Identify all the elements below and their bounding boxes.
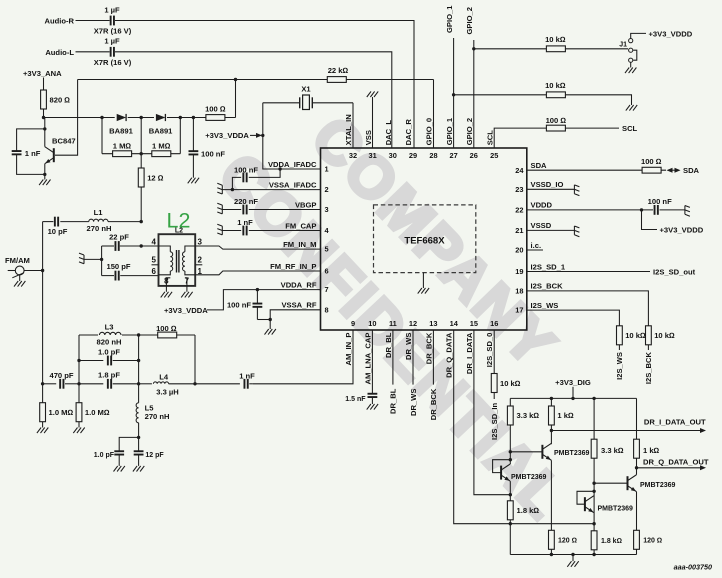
ground: [188, 178, 192, 184]
transistor Q4 PMBT2369 diode-connected: [584, 497, 586, 511]
junction: [137, 436, 140, 439]
junction: [41, 269, 44, 272]
ground ticks: [685, 206, 690, 217]
svg-text:820 Ω: 820 Ω: [50, 95, 71, 104]
junction: [571, 397, 574, 400]
wire main AM row: [43, 383, 57, 385]
junction: [41, 382, 44, 385]
junction: [592, 482, 595, 485]
inductor L1 270nH: [60, 221, 89, 223]
junction: [77, 382, 80, 385]
svg-text:1.8 pF: 1.8 pF: [98, 371, 120, 380]
wire pin4 row to transformer: [120, 245, 159, 247]
svg-text:30: 30: [389, 151, 397, 160]
ground: [625, 68, 629, 74]
junction: [261, 134, 264, 137]
junction: [592, 397, 595, 400]
svg-text:1 µF: 1 µF: [104, 37, 120, 46]
wire DR_Q_DATA: [454, 330, 594, 524]
wire DR_BL stub: [392, 330, 394, 385]
svg-text:1.0 MΩ: 1.0 MΩ: [85, 408, 110, 417]
svg-text:32: 32: [349, 151, 357, 160]
wire GPIO_0 drop: [433, 80, 435, 149]
wire I2S_SD_0: [493, 330, 495, 374]
wire L3 row: [79, 334, 195, 336]
wire: [186, 286, 188, 292]
svg-text:J1: J1: [619, 41, 627, 48]
wire AM_IN_P: [253, 330, 353, 384]
transistor Q2 PMBT2369: [510, 451, 542, 453]
junction: [100, 116, 103, 119]
wire DR_I_DATA_OUT: [551, 430, 701, 432]
node SDA bidirectional: [667, 168, 673, 173]
svg-text:GPIO_1: GPIO_1: [445, 117, 454, 145]
ground: [161, 292, 165, 298]
svg-text:L4: L4: [159, 373, 169, 382]
svg-text:+3V3_VDDD: +3V3_VDDD: [649, 29, 693, 38]
transformer right winding: [185, 246, 195, 252]
wire: [138, 437, 140, 450]
svg-text:X7R (16 V): X7R (16 V): [94, 27, 132, 36]
svg-text:BC847: BC847: [52, 136, 76, 145]
wire DR_BCK stub: [432, 330, 434, 385]
resistor R8 10 kOhm: [546, 92, 565, 98]
svg-text:820 nH: 820 nH: [97, 338, 122, 347]
svg-text:12 pF: 12 pF: [145, 452, 164, 459]
wire: [257, 319, 270, 321]
wire: [207, 290, 321, 310]
svg-text:AM_LNA_CAP: AM_LNA_CAP: [363, 333, 372, 385]
ground: [265, 329, 269, 335]
junction: [43, 127, 46, 130]
svg-text:100 nF: 100 nF: [234, 165, 258, 174]
transformer core: [176, 250, 178, 273]
svg-text:220 nF: 220 nF: [234, 197, 258, 206]
svg-text:L1: L1: [94, 208, 104, 217]
svg-text:10 kΩ: 10 kΩ: [625, 331, 646, 340]
wire pullup row 2: [454, 95, 632, 105]
wire emitter: [44, 164, 46, 175]
svg-text:26: 26: [470, 151, 478, 160]
svg-text:Audio-L: Audio-L: [45, 48, 74, 57]
capacitor C16 1.8pF: [107, 379, 109, 389]
junction: [635, 466, 638, 469]
svg-text:15: 15: [470, 319, 478, 328]
wire I2S_BCK: [527, 291, 649, 326]
svg-text:SCL: SCL: [485, 130, 494, 146]
wire: [630, 62, 632, 67]
wire: [636, 492, 638, 531]
svg-text:16: 16: [490, 319, 498, 328]
junction: [592, 490, 595, 493]
wire: [194, 335, 196, 384]
svg-text:PMBT2369: PMBT2369: [511, 474, 547, 481]
svg-text:5: 5: [152, 256, 157, 265]
junction: [43, 173, 46, 176]
ground VSS pin31: [372, 97, 374, 148]
svg-text:6: 6: [325, 267, 329, 276]
wire: [76, 20, 110, 22]
svg-text:8: 8: [164, 276, 169, 285]
svg-text:1.8 kΩ: 1.8 kΩ: [517, 506, 540, 515]
wire 1M row: [102, 153, 180, 155]
watermark COMPANY CONFIDENTIAL: [206, 104, 579, 532]
svg-text:I2S_WS: I2S_WS: [615, 352, 624, 380]
svg-text:120 Ω: 120 Ω: [558, 537, 577, 544]
capacitor C6 220nF VBGP: [222, 209, 241, 211]
wire: [101, 118, 103, 154]
capacitor C18 1.0pF: [114, 450, 124, 452]
svg-text:29: 29: [409, 151, 417, 160]
resistor R15 1.0 MOhm left: [42, 384, 44, 403]
svg-text:2: 2: [325, 185, 329, 194]
wire L2 pin1 to FM_RF_IN_P: [195, 271, 320, 275]
resistor R13 10 kOhm: [491, 374, 497, 393]
wire ground rail: [510, 554, 636, 556]
svg-text:DR_I_DATA_OUT: DR_I_DATA_OUT: [644, 418, 706, 427]
svg-text:22 pF: 22 pF: [109, 232, 129, 241]
wire VSSD: [527, 229, 575, 231]
wire pullup row 1: [474, 48, 628, 50]
junction: [140, 220, 143, 223]
svg-text:GPIO_1: GPIO_1: [445, 5, 454, 33]
wire I2S_SD_1: [527, 271, 650, 273]
wire left vertical: [78, 335, 80, 403]
svg-text:5: 5: [325, 245, 329, 254]
junction: [472, 47, 475, 50]
junction: [140, 152, 143, 155]
svg-text:BA891: BA891: [109, 126, 133, 135]
svg-text:11: 11: [389, 319, 397, 328]
svg-text:270 nH: 270 nH: [145, 412, 170, 421]
wire: [618, 345, 620, 350]
svg-text:PMBT2369: PMBT2369: [554, 450, 590, 457]
svg-text:10 kΩ: 10 kΩ: [545, 81, 566, 90]
wire DR_I_DATA: [474, 330, 510, 495]
wire to +3V3_VDDD: [642, 210, 658, 230]
svg-text:DR_WS: DR_WS: [409, 389, 418, 416]
svg-text:GPIO_2: GPIO_2: [465, 7, 474, 34]
svg-text:AM_IN_P: AM_IN_P: [344, 333, 353, 366]
svg-text:9: 9: [351, 319, 355, 328]
svg-text:I2S_WS: I2S_WS: [531, 301, 559, 310]
wire mid vertical: [138, 335, 140, 403]
capacitor C7 1nF FM_CAP: [222, 230, 241, 232]
wire: [165, 286, 167, 292]
junction: [77, 359, 80, 362]
resistor R14 100 Ohm: [158, 332, 177, 338]
svg-text:1 MΩ: 1 MΩ: [152, 142, 171, 151]
diode D2 BA891: [154, 116, 167, 119]
junction: [509, 450, 512, 453]
svg-text:1 nF: 1 nF: [25, 149, 41, 158]
junction: [179, 116, 182, 119]
ground internal: [418, 288, 422, 294]
junction: [571, 553, 574, 556]
capacitor C17 1nF: [244, 379, 246, 389]
transistor Q5 PMBT2369 output: [594, 482, 627, 484]
svg-text:100 Ω: 100 Ω: [546, 116, 567, 125]
resistor R18 1 kOhm: [550, 398, 552, 406]
ground ticks VSSA_IFADC: [217, 183, 222, 194]
wire supply rail: [510, 397, 636, 399]
wire: [636, 458, 638, 475]
svg-text:1.0 pF: 1.0 pF: [94, 452, 115, 459]
resistor R22 1.8 kOhm: [593, 550, 595, 555]
resistor R12 10 kOhm: [617, 326, 623, 345]
svg-text:1.0 MΩ: 1.0 MΩ: [49, 408, 74, 417]
svg-text:1 nF: 1 nF: [239, 372, 255, 381]
capacitor C3 100nF bias: [192, 118, 194, 151]
svg-text:i.c.: i.c.: [531, 241, 542, 250]
svg-text:25: 25: [490, 151, 498, 160]
capacitor C19 12pF: [134, 450, 144, 452]
wire: [509, 520, 511, 555]
ground: [367, 404, 371, 410]
wire Audio-R to DAC_R: [115, 21, 414, 149]
op-amp U1 TEF668X IC body: [321, 148, 527, 330]
wire main bias node row: [44, 117, 236, 119]
wire pin2 row: [222, 189, 320, 191]
resistor R7 10 kOhm: [546, 46, 565, 52]
ground: [114, 466, 118, 472]
capacitor C5 100nF IFADC: [249, 169, 280, 177]
svg-text:TEF668X: TEF668X: [404, 235, 445, 246]
svg-text:22 kΩ: 22 kΩ: [328, 66, 349, 75]
svg-text:+3V3_ANA: +3V3_ANA: [23, 69, 62, 78]
ground: [73, 428, 77, 434]
svg-text:SCL: SCL: [622, 124, 638, 133]
capacitor C8 10pF: [43, 221, 54, 223]
wire: [249, 383, 253, 385]
svg-text:2: 2: [198, 256, 203, 265]
svg-text:14: 14: [450, 319, 459, 328]
svg-text:VSSD_IO: VSSD_IO: [531, 180, 564, 189]
wire: [550, 425, 552, 444]
junction: [42, 116, 45, 119]
wire VDDD: [527, 209, 653, 211]
svg-text:1 kΩ: 1 kΩ: [643, 446, 660, 455]
wire L2 pin3 to FM_IN_M: [195, 246, 320, 249]
svg-text:21: 21: [515, 226, 523, 235]
wire SCL: [494, 128, 619, 148]
wire: [43, 78, 45, 91]
svg-text:3: 3: [198, 238, 203, 247]
svg-text:13: 13: [429, 319, 437, 328]
junction: [592, 522, 595, 525]
svg-text:1 µF: 1 µF: [104, 5, 120, 14]
svg-text:DR_BCK: DR_BCK: [429, 388, 438, 420]
svg-text:24: 24: [515, 166, 524, 175]
svg-text:I2S_SD_0: I2S_SD_0: [485, 333, 494, 368]
svg-text:1.8 kΩ: 1.8 kΩ: [601, 538, 622, 545]
svg-text:8: 8: [325, 305, 329, 314]
svg-text:L3: L3: [105, 323, 114, 332]
wire: [179, 118, 181, 154]
svg-text:L2: L2: [175, 228, 183, 235]
svg-text:DR_I_DATA: DR_I_DATA: [465, 332, 474, 374]
wire: [509, 462, 511, 464]
ground ticks: [217, 224, 222, 235]
svg-text:SDA: SDA: [683, 166, 700, 175]
wire 1.0pF row: [79, 360, 103, 362]
inductor L3 820nH: [98, 331, 122, 336]
resistor R23 1 kOhm right: [636, 398, 638, 439]
junction: [550, 553, 553, 556]
wire jumper shunt bracket: [633, 50, 637, 60]
wire: [44, 174, 46, 179]
junction: [137, 359, 140, 362]
junction: [137, 333, 140, 336]
junction: [550, 429, 553, 432]
wire crystal rail: [263, 103, 321, 169]
ground ticks: [79, 253, 84, 264]
resistor R3 1 MOhm: [152, 151, 171, 157]
svg-text:120 Ω: 120 Ω: [643, 537, 662, 544]
wire: [24, 270, 42, 272]
resistor R11 10 kOhm: [646, 326, 652, 345]
svg-text:GPIO_2: GPIO_2: [465, 118, 474, 145]
junction: [192, 116, 195, 119]
wire XTAL_IN drop: [352, 103, 354, 148]
svg-text:1.5 nF: 1.5 nF: [345, 396, 366, 403]
junction: [137, 382, 140, 385]
svg-text:FM/AM: FM/AM: [5, 256, 30, 265]
U1 inner dashed block: [374, 205, 476, 273]
svg-text:10: 10: [368, 319, 376, 328]
svg-text:DR_WS: DR_WS: [404, 333, 413, 360]
svg-text:270 nH: 270 nH: [87, 224, 112, 233]
svg-text:BA891: BA891: [149, 126, 173, 135]
svg-text:1.0 pF: 1.0 pF: [98, 347, 120, 356]
svg-text:10 kΩ: 10 kΩ: [654, 331, 675, 340]
svg-text:3.3 kΩ: 3.3 kΩ: [601, 446, 624, 455]
svg-text:Audio-R: Audio-R: [44, 17, 74, 26]
svg-text:DR_BCK: DR_BCK: [424, 332, 433, 364]
capacitor C10 150pF: [102, 275, 114, 277]
svg-text:XTAL_IN: XTAL_IN: [344, 114, 353, 145]
svg-text:VDDA_RF: VDDA_RF: [281, 280, 317, 289]
svg-text:I2S_SD_1: I2S_SD_1: [531, 262, 566, 271]
svg-text:VSSA_IFADC: VSSA_IFADC: [269, 180, 317, 189]
resistor R21 3.3 kOhm mid: [593, 398, 595, 439]
svg-text:PMBT2369: PMBT2369: [640, 482, 676, 489]
ground: [567, 561, 571, 567]
svg-text:100 nF: 100 nF: [648, 197, 672, 206]
svg-text:FM_RF_IN_P: FM_RF_IN_P: [270, 262, 316, 271]
junction: [509, 458, 512, 461]
svg-text:100 nF: 100 nF: [201, 149, 225, 158]
wire: [647, 345, 649, 350]
junction pin1 node: [278, 167, 281, 170]
resistor R9 100 Ohm SCL: [546, 125, 565, 131]
wire i.c. stub: [527, 249, 543, 251]
svg-text:+3V3_VDDA: +3V3_VDDA: [164, 306, 208, 315]
inductor L5 270nH: [136, 403, 139, 423]
wire: [422, 273, 424, 288]
svg-text:1 nF: 1 nF: [237, 218, 253, 227]
transistor Q1 BC847: [53, 148, 55, 162]
ground ticks: [217, 203, 222, 214]
svg-text:DAC_R: DAC_R: [404, 119, 413, 146]
wire DR_Q_DATA_OUT: [637, 467, 702, 469]
svg-text:23: 23: [515, 185, 523, 194]
wire to +3V3_VDDD: [631, 33, 646, 38]
svg-text:31: 31: [368, 151, 376, 160]
wire: [493, 393, 495, 400]
resistor R20 120 Ohm: [550, 549, 552, 554]
wire antenna vertical: [42, 222, 44, 384]
svg-text:100 nF: 100 nF: [227, 300, 251, 309]
svg-text:VSSD: VSSD: [531, 221, 552, 230]
svg-text:VSS: VSS: [364, 130, 373, 145]
svg-text:100 Ω: 100 Ω: [156, 324, 177, 333]
svg-text:aaa-003750: aaa-003750: [674, 563, 712, 572]
svg-text:19: 19: [515, 267, 523, 276]
svg-text:3.3 kΩ: 3.3 kΩ: [517, 411, 540, 420]
wire to top rail: [235, 80, 237, 118]
svg-text:VDDD: VDDD: [531, 201, 553, 210]
svg-text:27: 27: [449, 151, 457, 160]
svg-text:100 Ω: 100 Ω: [641, 157, 662, 166]
wire: [76, 51, 110, 53]
svg-text:I2S_BCK: I2S_BCK: [644, 351, 653, 384]
wire: [140, 118, 142, 169]
svg-text:1 kΩ: 1 kΩ: [557, 411, 574, 420]
crystal X1: [263, 102, 300, 104]
wire: [550, 460, 552, 530]
junction: [509, 522, 512, 525]
svg-text:7: 7: [185, 276, 190, 285]
wire top rail: [78, 79, 434, 81]
svg-text:X1: X1: [301, 85, 311, 94]
wire GPIO_2 net: [473, 40, 475, 148]
capacitor C11 100nF VDDA_RF: [256, 290, 258, 303]
svg-text:GPIO_0: GPIO_0: [425, 118, 434, 145]
diode D1 BA891: [115, 116, 128, 119]
svg-text:1 MΩ: 1 MΩ: [113, 142, 132, 151]
svg-text:4: 4: [152, 238, 157, 247]
svg-text:FM_CAP: FM_CAP: [285, 221, 316, 230]
junction: [452, 93, 455, 96]
junction: [550, 397, 553, 400]
svg-text:I2S_BCK: I2S_BCK: [531, 282, 564, 291]
capacitor C4 1nF: [17, 129, 45, 151]
wire BC847 base feed: [55, 80, 78, 156]
transformer L2 box: [159, 234, 196, 286]
svg-text:18: 18: [515, 287, 523, 296]
svg-text:10 pF: 10 pF: [48, 227, 68, 236]
svg-text:VBGP: VBGP: [295, 200, 317, 209]
svg-text:100 Ω: 100 Ω: [205, 105, 226, 114]
wire: [572, 555, 574, 562]
resistor R10 100 Ohm SDA: [642, 167, 661, 173]
wire VSSD_IO: [527, 188, 575, 190]
wire AM_LNA_CAP: [371, 330, 373, 393]
svg-text:VDDA_IFADC: VDDA_IFADC: [268, 160, 317, 169]
wire: [636, 549, 638, 554]
wire Audio-L to DAC_L: [115, 52, 392, 148]
ground: [14, 281, 18, 287]
svg-text:DAC_L: DAC_L: [384, 120, 393, 146]
ground: [181, 292, 185, 298]
svg-text:I2S_SD_out: I2S_SD_out: [653, 267, 696, 276]
svg-text:6: 6: [152, 267, 157, 276]
svg-text:10 kΩ: 10 kΩ: [545, 35, 566, 44]
wire: [79, 383, 103, 385]
wire: [593, 458, 595, 531]
inductor L4 3.3uH: [139, 383, 152, 385]
